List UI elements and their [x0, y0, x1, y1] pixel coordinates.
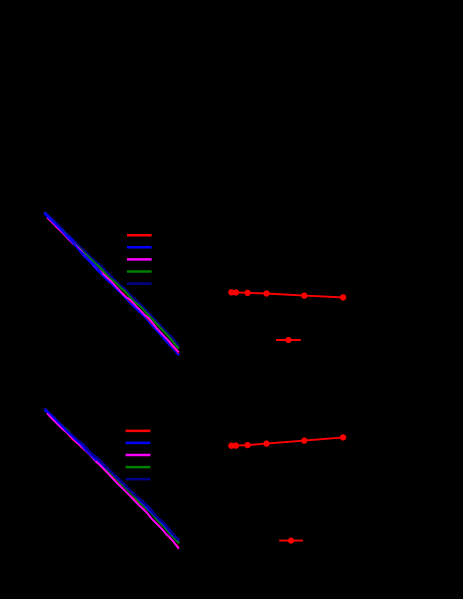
red marker 3 (top-right) — [244, 290, 250, 296]
blue legend sample (bottom legend) — [126, 442, 151, 445]
red legend sample (bottom legend) — [126, 430, 151, 433]
magenta bundle line (bottom plot) — [48, 414, 179, 548]
magenta bundle line (top plot) — [48, 218, 179, 352]
red marker 5 (bottom-right) — [301, 437, 307, 443]
green bundle line (bottom plot) — [45, 410, 178, 542]
green legend sample (bottom legend) — [126, 466, 151, 469]
red bundle line (bottom plot) — [48, 414, 179, 547]
magenta legend sample (top legend) — [127, 258, 152, 261]
red marker 4 (top-right) — [263, 290, 269, 296]
red marker 1 (bottom-right) — [228, 443, 234, 449]
red marker 2 (top-right) — [233, 289, 239, 295]
top-right legend marker — [285, 337, 291, 343]
red marker 3 (bottom-right) — [244, 442, 250, 448]
navy bundle line (top plot) — [45, 213, 178, 346]
blue bundle line (top plot) — [45, 214, 178, 355]
blue overlay (bottom plot) — [45, 409, 96, 460]
blue legend sample (top legend) — [127, 246, 152, 249]
red marker 6 (bottom-right) — [340, 434, 346, 440]
navy bundle line (bottom plot) — [45, 409, 178, 539]
green bundle line (top plot) — [45, 213, 178, 348]
red legend sample (top legend) — [127, 234, 152, 237]
blue overlay (top plot) — [45, 214, 101, 273]
navy legend sample (bottom legend) — [126, 478, 151, 481]
bottom-right legend marker — [288, 538, 294, 544]
red marker 6 (top-right) — [340, 294, 346, 300]
navy legend sample (top legend) — [127, 282, 152, 285]
blue bundle line (bottom plot) — [45, 411, 178, 541]
red series line (bottom-right) — [231, 437, 343, 445]
top-right legend: red line with marker — [276, 339, 301, 341]
red bundle line (top plot) — [48, 218, 179, 352]
green legend sample (top legend) — [127, 270, 152, 273]
red marker 1 (top-right) — [228, 289, 234, 295]
red series line (top-right) — [231, 292, 343, 297]
bottom-right legend: red line with marker — [279, 540, 303, 542]
red marker 2 (bottom-right) — [233, 442, 239, 448]
red marker 4 (bottom-right) — [263, 440, 269, 446]
magenta legend sample (bottom legend) — [126, 454, 151, 457]
red marker 5 (top-right) — [301, 292, 307, 298]
